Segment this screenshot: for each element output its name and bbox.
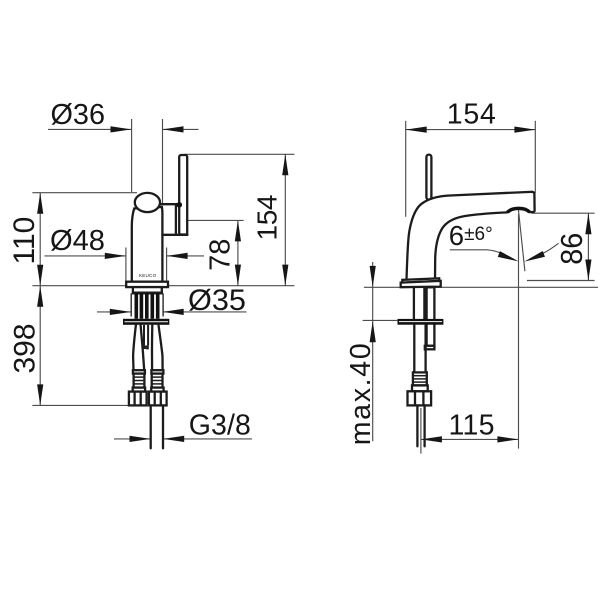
Ø36 extension lines [131,119,133,192]
Ø35 dimension line [97,311,131,313]
nut right [149,392,167,406]
ribbed band side [413,372,427,385]
nut side [408,391,432,405]
ribbed band left [134,374,145,388]
svg-text:110: 110 [8,217,41,265]
G3/8 dimension line [114,438,150,440]
faucet body side profile [406,192,534,283]
extension line hose bottom (398 bottom) [32,404,129,406]
G3/8 pipe below right nut [150,405,152,448]
central stud between hoses [143,325,145,345]
hose side walls [413,325,415,373]
Ø48 dimension line [45,255,126,257]
angle leader line [450,250,501,253]
86 extension bottom [527,280,595,282]
angle arrowhead right [523,251,545,264]
svg-text:78: 78 [205,239,237,271]
tilted spout axis line [518,209,525,272]
svg-text:KEUCO: KEUCO [139,273,157,278]
flange side [398,319,444,325]
115 left extension [420,408,422,454]
faucet body tube front [132,207,163,282]
pipe below nut side [416,405,418,446]
hose left inner wall [141,325,145,370]
86 dimension vertical [587,213,589,280]
flange (escutcheon) front [123,319,169,325]
angle arrowhead left [498,251,520,264]
hose right inner wall [151,325,154,370]
154 dimension line right [406,129,536,131]
hose left outer wall [133,325,136,370]
svg-text:6±6°: 6±6° [449,220,493,251]
base plate side upper [402,278,439,283]
angle arc right part [543,243,559,253]
hose right outer wall [159,325,163,370]
pivot dot [177,202,183,208]
base plate side lower [401,281,441,287]
crimp ring left above nut [133,388,145,392]
extension line lever top (154 top) [185,153,295,155]
154 dimension vertical (left view) [284,154,286,285]
extension lines 154 right [405,121,407,217]
cartridge housing [161,203,179,205]
110 / 398 dimension vertical [39,193,41,406]
stud foot [425,346,435,350]
crimp ring side [412,385,428,391]
svg-text:Ø48: Ø48 [50,225,105,257]
mounting stud side [427,287,435,346]
shank left line [413,287,415,319]
dome cap ellipse [135,193,160,212]
base plate front [126,282,168,287]
extension line mounting plane (long) [32,285,294,287]
extension line top of body (110 top) [32,192,137,194]
flange top extension (max40 bottom) [363,319,398,321]
Ø48 extension lines [125,248,127,282]
svg-text:86: 86 [554,233,589,265]
svg-text:398: 398 [9,323,42,373]
max.40 dimension vertical [372,262,374,441]
vertical axis reference line [518,214,520,449]
svg-text:G3/8: G3/8 [189,409,251,441]
mounting plane right [364,286,598,288]
crimp step right [151,370,163,373]
aerator outlet [507,208,529,212]
86 extension top [532,212,595,214]
crimp step left [133,370,145,373]
svg-text:154: 154 [251,195,282,241]
crimp ring right above nut [151,388,163,392]
svg-text:max.40: max.40 [345,343,377,445]
threaded shaft bars [135,293,139,319]
extension line 78 top [188,219,244,221]
collar below plate [133,287,162,293]
svg-text:115: 115 [449,410,495,442]
svg-text:154: 154 [447,99,496,131]
lever pin side [426,155,431,200]
78 dimension vertical [237,220,239,285]
svg-text:Ø35: Ø35 [188,284,246,317]
svg-text:Ø36: Ø36 [51,99,106,131]
threaded shaft outer lines [130,293,132,316]
shank right line [423,287,425,319]
ribbed band right [152,374,163,388]
115 dimension line [421,438,519,440]
lever bar front [179,155,187,235]
Ø36 dimension line [48,128,132,130]
nut left [129,392,147,406]
